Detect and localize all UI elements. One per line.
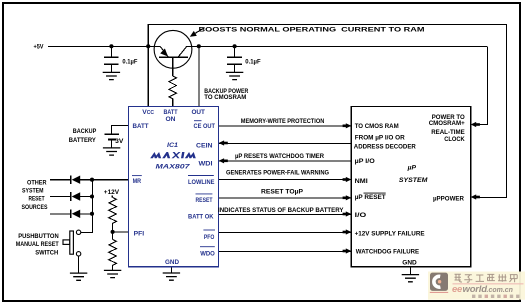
svg-text:VCC: VCC [142,109,154,116]
svg-text:BATT OK: BATT OK [188,213,214,220]
svg-text:PFI: PFI [134,231,145,238]
svg-text:world: world [463,284,488,295]
svg-text:OTHER: OTHER [27,179,47,186]
svg-text:0.1µF: 0.1µF [122,58,137,65]
svg-text:ADDRESS DECODER: ADDRESS DECODER [354,144,416,151]
svg-text:MEMORY-WRITE PROTECTION: MEMORY-WRITE PROTECTION [241,118,325,125]
svg-text:+12V SUPPLY FAILURE: +12V SUPPLY FAILURE [355,231,426,238]
svg-text:BATT: BATT [133,123,150,130]
svg-text:+5V: +5V [34,43,44,50]
svg-text:IC1: IC1 [167,142,178,149]
svg-text:MAX807: MAX807 [156,163,190,170]
svg-text:INDICATES STATUS OF BACKUP BAT: INDICATES STATUS OF BACKUP BATTERY [218,207,344,214]
svg-text:PUSHBUTTON: PUSHBUTTON [18,233,59,240]
svg-text:RESET: RESET [29,195,46,202]
svg-text:NMI: NMI [355,178,368,185]
svg-text:CLOCK: CLOCK [444,136,465,143]
svg-text:.com.cn: .com.cn [487,287,513,294]
svg-text:+12V: +12V [104,189,120,196]
svg-text:ON: ON [166,116,176,123]
svg-text:BATTERY: BATTERY [69,137,96,144]
svg-text:BATT: BATT [164,109,179,116]
svg-text:ee: ee [452,284,463,295]
svg-text:WDO: WDO [200,251,215,258]
svg-text:µP RESETS WATCHDOG TIMER: µP RESETS WATCHDOG TIMER [235,153,324,160]
svg-text:µP: µP [407,164,417,171]
svg-text:I/O: I/O [355,212,367,219]
svg-text:CMOSRAM+: CMOSRAM+ [429,120,465,127]
svg-text:WDI: WDI [199,160,213,167]
svg-text:MANUAL RESET: MANUAL RESET [16,241,60,248]
svg-text:CEIN: CEIN [196,143,213,150]
svg-text:µP RESET: µP RESET [355,194,387,201]
svg-text:PFO: PFO [204,234,215,241]
svg-text:BOOSTS NORMAL OPERATING CURRE: BOOSTS NORMAL OPERATING CURRENT TO RAM [199,26,426,33]
svg-text:MR: MR [133,178,142,185]
svg-text:µPPOWER: µPPOWER [433,195,464,202]
svg-text:TO CMOS RAM: TO CMOS RAM [355,123,399,130]
svg-text:RESET: RESET [196,197,214,204]
svg-text:GENERATES POWER-FAIL WARNING: GENERATES POWER-FAIL WARNING [226,170,329,177]
svg-text:FROM µP I/O OR: FROM µP I/O OR [355,134,405,141]
svg-text:SOURCES: SOURCES [22,204,48,211]
svg-text:SWITCH: SWITCH [35,250,58,257]
svg-text:OUT: OUT [191,109,205,116]
svg-text:SYSTEM: SYSTEM [22,188,44,195]
svg-text:SYSTEM: SYSTEM [399,177,428,184]
svg-text:LOWLINE: LOWLINE [188,179,215,186]
svg-text:µP I/O: µP I/O [355,158,375,165]
svg-text:RESET TOµP: RESET TOµP [261,188,304,195]
svg-text:TO CMOSRAM: TO CMOSRAM [204,94,246,101]
svg-text:BACKUP: BACKUP [73,128,97,135]
svg-text:3V: 3V [115,138,124,145]
svg-text:GND: GND [165,259,179,266]
svg-text:WATCHDOG FAILURE: WATCHDOG FAILURE [356,248,420,255]
svg-text:GND: GND [402,259,417,266]
svg-text:CE OUT: CE OUT [194,123,216,130]
svg-text:REAL-TIME: REAL-TIME [431,129,465,136]
svg-text:0.1µF: 0.1µF [245,58,260,65]
